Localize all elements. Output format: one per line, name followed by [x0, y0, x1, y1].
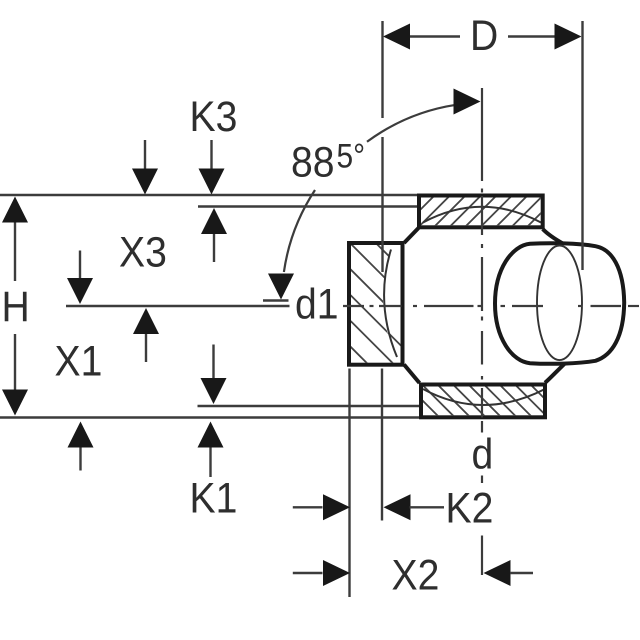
- X3 up arrow (at line B): [201, 208, 227, 234]
- K3 stem right: [210, 140, 212, 169]
- angle arc down arrowhead: [268, 274, 294, 300]
- K2 arrow pointing left: [384, 494, 411, 520]
- reference line A (top of fitting, y=195): [0, 194, 419, 196]
- D dimension right extension line: [581, 21, 583, 270]
- connector curve top right: [543, 229, 563, 244]
- right outlet opening (inner ellipse): [537, 245, 582, 360]
- reference line E (socket depth bottom, y=406): [198, 405, 420, 407]
- reference line B (socket depth top, y=206.5): [198, 205, 417, 207]
- extension line below block bore edge: [381, 369, 383, 521]
- D dimension left extension line (lower part): [381, 137, 383, 272]
- D dimension line left tail: [410, 35, 460, 37]
- X1 down arrow stem: [212, 345, 214, 379]
- K3 arrow left (down at line A): [132, 169, 158, 195]
- D dimension left extension line (upper part): [381, 21, 383, 118]
- K3 arrow right (down at line A): [199, 169, 225, 195]
- angle leader arc segment upper: [367, 105, 456, 142]
- svg-text:X3: X3: [119, 228, 167, 276]
- connector curve bottom right: [545, 364, 565, 383]
- right outlet socket (barrel): [495, 243, 624, 364]
- top socket inner edge arc: [423, 207, 541, 223]
- svg-text:d1: d1: [295, 280, 339, 328]
- X2 right tail: [510, 572, 533, 574]
- svg-text:K3: K3: [190, 92, 238, 140]
- svg-text:K1: K1: [190, 474, 238, 522]
- X3 down arrow stem: [79, 251, 81, 279]
- left inlet socket section (hatched block): [330, 146, 460, 482]
- reference line D (bottom of fitting, y=417.5): [0, 416, 420, 418]
- reference line C (horizontal axis reference, y=306): [66, 305, 290, 307]
- svg-text:D: D: [470, 11, 498, 59]
- K1 up arrow (at line D): [198, 422, 224, 448]
- svg-text:X1: X1: [55, 337, 103, 385]
- inlet socket inner end arc: [384, 250, 397, 358]
- svg-text:88: 88: [291, 138, 335, 186]
- bottom socket inner edge arc: [423, 389, 545, 405]
- X1 up arrow (at line C): [133, 308, 159, 334]
- X3 down arrow (at line C): [67, 278, 93, 304]
- vertical center line dot below d label: [481, 476, 483, 484]
- svg-text:H: H: [2, 282, 30, 330]
- H dimension down arrow: [2, 390, 28, 416]
- H dimension up arrow: [2, 197, 28, 223]
- vertical center line lower: [481, 536, 483, 576]
- X1 column up arrow stem: [79, 448, 81, 471]
- H stem upper: [14, 223, 16, 282]
- top branch socket (hatched strip): [400, 193, 561, 230]
- inlet socket bore (white): [383, 246, 401, 333]
- X3 up arrow stem: [213, 234, 215, 262]
- angle leader arc segment lower: [284, 190, 315, 272]
- D arrow left: [383, 24, 410, 50]
- X1 down arrow (at line E): [201, 378, 227, 404]
- svg-text:K2: K2: [446, 484, 494, 532]
- K2 arrow pointing right: [323, 494, 350, 520]
- H stem lower: [14, 334, 16, 390]
- K2 dimension left tail: [293, 506, 323, 508]
- X2 arrow pointing left: [484, 560, 511, 586]
- K1 stem: [209, 448, 211, 478]
- X1 column up arrow (at line D): [68, 422, 94, 448]
- K2 right tail: [410, 506, 445, 508]
- extension line below block left edge: [348, 369, 350, 598]
- chamfer top left: [404, 228, 419, 243]
- bottom branch socket (hatched strip): [402, 380, 566, 420]
- svg-text:5°: 5°: [337, 137, 366, 175]
- angle arc right arrowhead: [454, 89, 481, 115]
- X2 dimension left tail: [293, 572, 323, 574]
- centerline start dash left of d1: [263, 299, 289, 301]
- D arrow right: [555, 24, 582, 50]
- X1 up arrow stem: [145, 334, 147, 362]
- vertical center line (dash-dot): [481, 88, 483, 433]
- svg-text:d: d: [472, 430, 494, 478]
- chamfer bottom left: [404, 365, 420, 384]
- D dimension line right tail: [508, 35, 555, 37]
- horizontal center line (dash-dot): [343, 305, 639, 307]
- svg-text:X2: X2: [392, 551, 440, 599]
- K3 stem left: [144, 140, 146, 169]
- X2 arrow pointing right: [323, 560, 350, 586]
